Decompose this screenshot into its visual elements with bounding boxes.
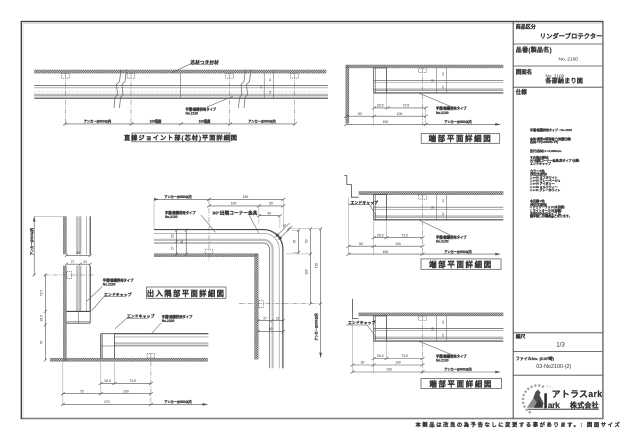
svg-text:アンカー@600以内: アンカー@600以内: [248, 119, 275, 124]
D2a right cross-section dims: [436, 67, 446, 93]
svg-text:No.2100: No.2100: [165, 215, 178, 219]
title block divider: [512, 22, 514, 419]
svg-text:27: 27: [441, 212, 445, 216]
D4 right dim 50/100: [310, 229, 312, 304]
D4 top extension lines: [154, 200, 283, 230]
svg-text:23: 23: [170, 234, 174, 238]
svg-text:品番(製品名): 品番(製品名): [516, 46, 552, 54]
D3 extension lines: [353, 319, 387, 373]
D4 left wall hatch band (lower segment): [63, 266, 66, 362]
svg-text:アンカー@600以内: アンカー@600以内: [444, 367, 471, 372]
D2a rail lines: [374, 80, 503, 93]
D4 left wall hatch band (upper segment): [63, 216, 66, 254]
svg-text:アンカー@600以内: アンカー@600以内: [164, 399, 191, 404]
svg-text:端部平面詳細図: 端部平面詳細図: [429, 260, 493, 269]
D2b dim row 150/anchor: [349, 253, 501, 255]
D4 right dim 150: [320, 229, 322, 304]
logo A figure: [527, 390, 560, 411]
svg-text:26.5: 26.5: [377, 104, 384, 108]
D2a dim row 50/100: [346, 115, 426, 117]
svg-text:50: 50: [358, 112, 362, 116]
svg-text:定尺(芯材):L=4,000mm: 定尺(芯材):L=4,000mm: [529, 148, 562, 153]
svg-text:商品区分: 商品区分: [516, 24, 536, 31]
svg-text:50: 50: [431, 79, 435, 83]
D2b extension lines: [349, 197, 387, 255]
D2a dim row 150/anchor: [346, 123, 501, 125]
logo underline: [528, 408, 599, 410]
D4 corner joint diagonal dim: [276, 223, 293, 240]
svg-text:縮尺: 縮尺: [516, 333, 526, 340]
D4 top rail lines: [154, 230, 264, 243]
svg-text:73.5: 73.5: [39, 290, 43, 296]
D2b anchor: [419, 195, 427, 199]
D4 bottom rail anchor: [147, 353, 155, 358]
svg-text:150: 150: [383, 250, 389, 254]
D4 right ext lines: [286, 229, 322, 254]
D4 left rail lines (upper segment): [77, 216, 90, 254]
D2a dim row 26.5/73.5: [374, 107, 426, 109]
svg-text:26.5: 26.5: [39, 315, 43, 321]
D2b end cap: [374, 195, 387, 220]
svg-text:継手無しの構成品となります。: 継手無しの構成品となります。: [530, 213, 572, 218]
D4 right anchor-span dim: [320, 304, 322, 358]
svg-text:70: 70: [39, 341, 43, 345]
D1 wall hatch band: [34, 70, 326, 73]
D4 bottom rail end cap: [101, 334, 115, 359]
svg-text:No.2100: No.2100: [436, 111, 449, 115]
D3 end cap: [374, 316, 387, 341]
svg-text:アンカー@600以内: アンカー@600以内: [313, 313, 318, 340]
svg-text:エンドキャップ: エンドキャップ: [348, 320, 376, 325]
svg-text:No. 2100: No. 2100: [559, 57, 579, 63]
svg-text:27: 27: [441, 85, 445, 89]
D2b dim row 26.5/73.5: [374, 237, 423, 239]
svg-text:23: 23: [268, 90, 272, 94]
svg-text:150: 150: [383, 120, 389, 124]
D2b rail lines: [374, 207, 503, 220]
svg-text:アンカー@600以内: アンカー@600以内: [444, 119, 471, 124]
svg-text:100程度: 100程度: [150, 119, 163, 124]
svg-text:本製品は改良の為予告なしに変更する事があります。: 図面サイ: 本製品は改良の為予告なしに変更する事があります。: 図面サイズ A3: [416, 420, 624, 428]
svg-text:100程度: 100程度: [199, 119, 212, 124]
D4 top dim row 100/50: [209, 205, 283, 207]
svg-text:50: 50: [304, 239, 308, 243]
D4 bottom extension lines: [63, 358, 115, 405]
D1 anchor center lines: [66, 73, 295, 125]
spec text block: [529, 127, 579, 218]
D2a wall hatch top band: [346, 65, 504, 68]
svg-text:100: 100: [397, 112, 403, 116]
svg-text:27: 27: [441, 333, 445, 337]
D4 left rail anchor: [67, 271, 72, 278]
svg-text:03-No2100-(2): 03-No2100-(2): [536, 364, 571, 370]
svg-text:No.2100: No.2100: [436, 359, 449, 363]
D1 title box: [132, 133, 230, 142]
D2b wall step end: [344, 176, 358, 198]
svg-text:100: 100: [123, 389, 129, 393]
D4 bottom dim row 170/anchor: [63, 403, 208, 405]
D4 title box: [147, 287, 227, 298]
svg-text:芯材つき付材: 芯材つき付材: [191, 59, 220, 66]
D1 dim texts: [84, 119, 276, 124]
D4 right wall hatch band: [255, 254, 259, 360]
svg-text:直線ジョイント部(芯材)平面詳細図: 直線ジョイント部(芯材)平面詳細図: [124, 134, 238, 142]
svg-text:26.5: 26.5: [104, 379, 111, 383]
svg-text:エンドキャップ: エンドキャップ: [127, 313, 155, 318]
svg-text:端部平面詳細図: 端部平面詳細図: [429, 134, 493, 143]
D4 right rail cross dims 27/23 and 50: [258, 320, 283, 322]
svg-text:23: 23: [441, 72, 445, 76]
svg-text:11: 11: [268, 78, 272, 81]
D1 rail lines: [34, 86, 328, 99]
D3 title box: [421, 378, 502, 388]
svg-text:50: 50: [269, 327, 273, 331]
svg-text:50: 50: [431, 327, 435, 331]
svg-text:ファイルNo. (DXF時): ファイルNo. (DXF時): [516, 355, 555, 361]
D4 top wall hatch band: [154, 254, 258, 257]
D2b wall hatch band: [359, 192, 504, 195]
svg-text:No.2100: No.2100: [186, 112, 199, 116]
svg-text:23: 23: [259, 85, 263, 89]
svg-text:27: 27: [71, 260, 75, 264]
svg-text:エンドキャップ: エンドキャップ: [530, 160, 552, 165]
D4 left rail cross dims 50 and 27/23: [66, 254, 90, 256]
D1 rail centerline: [34, 90, 328, 92]
svg-text:仕様: 仕様: [515, 88, 528, 96]
D3 dim row 130/anchor: [353, 371, 501, 373]
D2b right cross-section dims: [436, 194, 446, 220]
svg-text:45: 45: [292, 240, 296, 244]
svg-text:50: 50: [77, 251, 81, 255]
D2a wall hatch left return band: [346, 65, 349, 123]
svg-text:出入隅部平面詳細図: 出入隅部平面詳細図: [147, 289, 226, 298]
svg-text:170: 170: [104, 400, 110, 404]
title block row lines: [513, 44, 602, 375]
D2b title box: [421, 259, 501, 269]
svg-text:100: 100: [395, 361, 401, 365]
svg-text:ark: ark: [548, 400, 560, 410]
D2a end cap: [374, 68, 387, 93]
logo gear arc: [523, 385, 553, 413]
svg-text:76: 76: [80, 389, 84, 393]
svg-text:50: 50: [431, 205, 435, 209]
svg-text:100: 100: [231, 202, 237, 206]
svg-text:手摺/兼護併用タイプ : No.2100: 手摺/兼護併用タイプ : No.2100: [530, 127, 572, 132]
D3 dim row 26.5/73.5: [374, 358, 423, 360]
D3 wall cut end: [353, 299, 359, 319]
svg-text:23: 23: [276, 316, 280, 320]
svg-text:エンドキャップ: エンドキャップ: [104, 292, 132, 297]
svg-text:27: 27: [263, 316, 267, 320]
D3 wall hatch band: [358, 313, 503, 316]
D4 top dim row anchor/150: [154, 198, 283, 200]
D1 break mark right: [239, 70, 252, 109]
svg-text:図面名: 図面名: [516, 68, 532, 76]
svg-text:26.5: 26.5: [377, 354, 384, 358]
svg-text:各部納まり図: 各部納まり図: [544, 77, 583, 85]
D4 corner arc: [264, 230, 283, 249]
D1 anchors: [62, 73, 299, 78]
svg-text:100: 100: [395, 242, 401, 246]
svg-text:100: 100: [304, 269, 308, 275]
D4 left dim column 73.5/26.5/70: [44, 275, 46, 360]
svg-text:No.2100: No.2100: [436, 240, 449, 244]
svg-text:アンカー@600以内: アンカー@600以内: [29, 228, 34, 255]
D4 right dim 45: [298, 230, 300, 252]
svg-text:端部平面詳細図: 端部平面詳細図: [429, 380, 493, 389]
D4 top rail cross dims 23/27 and 50: [176, 230, 178, 254]
svg-text:No. 2100: No. 2100: [546, 74, 565, 79]
svg-text:芯材:TP(A6063S-T5): 芯材:TP(A6063S-T5): [530, 139, 558, 144]
D3 rail lines: [374, 329, 503, 342]
svg-text:50: 50: [269, 202, 273, 206]
D4 bottom dim row 76/100: [63, 393, 151, 395]
D3 dim row 30/100: [353, 364, 423, 366]
svg-text:150: 150: [243, 195, 249, 199]
svg-text:73.5: 73.5: [403, 104, 410, 108]
D4 top anchor: [205, 249, 213, 254]
D4 bottom dim row 26.5/73.5: [101, 382, 151, 384]
D4 bottom wall hatch band: [50, 358, 208, 361]
svg-text:30: 30: [361, 361, 365, 365]
D4 right anchor: [259, 300, 264, 307]
D4 left rail end cap: [66, 311, 90, 323]
D4 left anchor-span dim: [33, 217, 35, 276]
svg-text:アンカー@600以内: アンカー@600以内: [444, 249, 471, 254]
svg-text:40: 40: [267, 211, 271, 215]
svg-text:130: 130: [386, 368, 392, 372]
D1 joint line: [180, 73, 182, 99]
D3 right cross-section dims: [436, 316, 446, 342]
svg-text:27: 27: [170, 246, 174, 250]
svg-text:23: 23: [83, 260, 87, 264]
D1 bottom dimension line: [65, 123, 296, 125]
svg-text:150: 150: [314, 263, 318, 269]
D4 left rail lines (lower segment): [77, 266, 90, 312]
svg-text:23: 23: [441, 199, 445, 203]
D2b dim row 50/100: [349, 245, 423, 247]
svg-text:73.5: 73.5: [401, 233, 408, 237]
svg-text:50: 50: [180, 240, 184, 244]
D4 top dim row 40: [259, 215, 280, 217]
D1 break mark left: [114, 70, 127, 109]
svg-text:50: 50: [359, 242, 363, 246]
D2a extension lines: [374, 93, 426, 125]
svg-text:90°出隅コーナー金具: 90°出隅コーナー金具: [213, 209, 258, 216]
svg-text:エンドキャップ: エンドキャップ: [351, 200, 379, 205]
svg-text:No.2100: No.2100: [103, 283, 116, 287]
svg-text:26.5: 26.5: [377, 233, 384, 237]
svg-text:□ α-11 グレーホワイト: □ α-11 グレーホワイト: [530, 187, 561, 192]
svg-text:株式会社: 株式会社: [570, 401, 599, 410]
svg-text:73.5: 73.5: [401, 354, 408, 358]
D3 anchor: [419, 316, 427, 320]
svg-text:No.2100: No.2100: [162, 319, 175, 323]
D2a title box: [421, 134, 500, 144]
svg-text:1/3: 1/3: [556, 342, 565, 349]
D4 bottom rail lines: [114, 334, 208, 346]
svg-text:73.5: 73.5: [129, 379, 136, 383]
svg-text:アンカー@600以内: アンカー@600以内: [164, 194, 191, 199]
D2a anchor: [419, 68, 427, 72]
svg-text:アトラスark: アトラスark: [552, 389, 603, 399]
D1 right cross-section dims: [264, 71, 273, 99]
svg-text:リンダーブロテクター: リンダーブロテクター: [540, 32, 603, 40]
D4 right rail lines: [270, 249, 283, 368]
svg-text:23: 23: [441, 320, 445, 324]
svg-text:アンカー@600以内: アンカー@600以内: [84, 119, 111, 124]
